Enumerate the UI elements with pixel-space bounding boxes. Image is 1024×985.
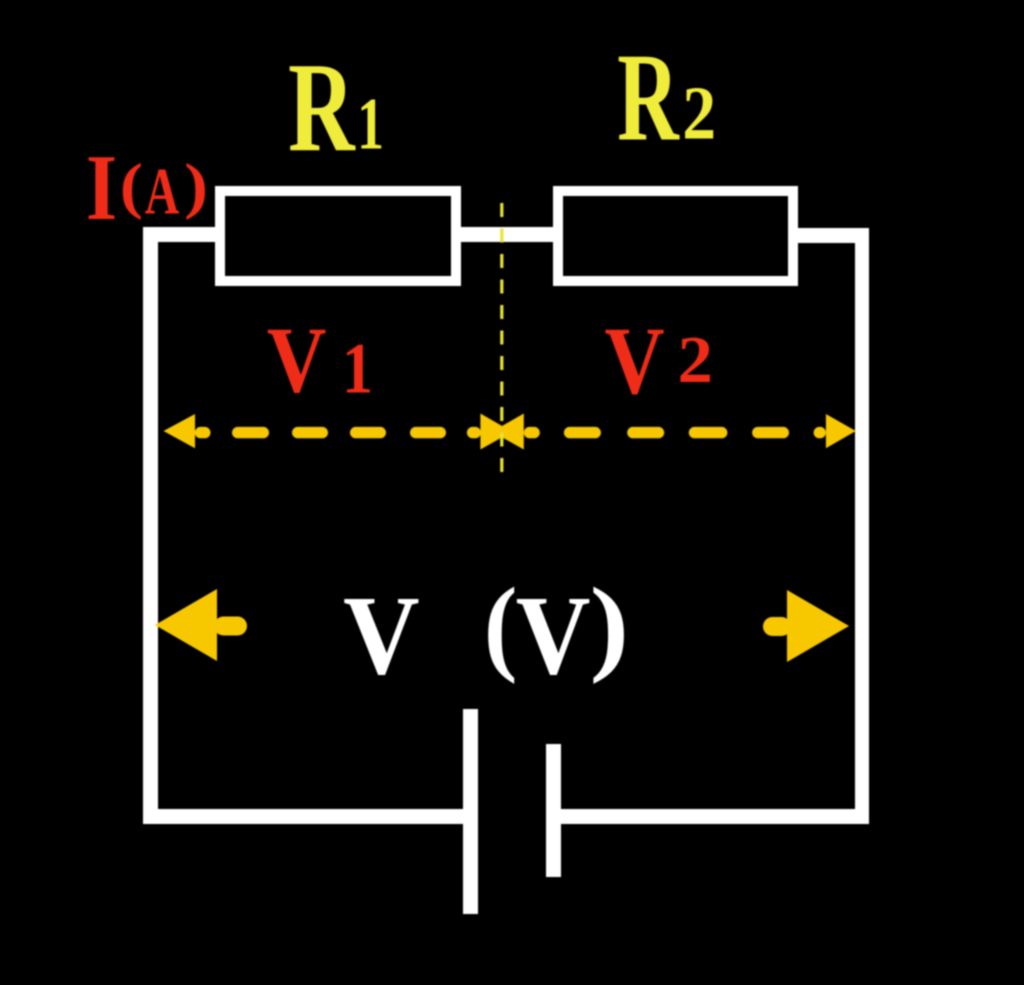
svg-text:R: R bbox=[617, 28, 680, 167]
svg-text:2: 2 bbox=[682, 71, 716, 156]
svg-text:1: 1 bbox=[342, 329, 373, 408]
svg-text:A: A bbox=[145, 154, 180, 229]
svg-text:V: V bbox=[605, 309, 665, 415]
svg-text:R: R bbox=[288, 37, 356, 179]
svg-text:2: 2 bbox=[678, 323, 713, 396]
svg-text:): ) bbox=[184, 151, 208, 220]
svg-text:(: ( bbox=[484, 565, 518, 685]
svg-text:1: 1 bbox=[357, 83, 384, 165]
svg-text:V: V bbox=[516, 572, 591, 699]
svg-text:): ) bbox=[590, 566, 629, 685]
svg-text:V: V bbox=[343, 572, 419, 698]
svg-text:V: V bbox=[267, 309, 327, 413]
svg-text:(: ( bbox=[120, 152, 143, 221]
svg-text:I: I bbox=[86, 136, 117, 241]
